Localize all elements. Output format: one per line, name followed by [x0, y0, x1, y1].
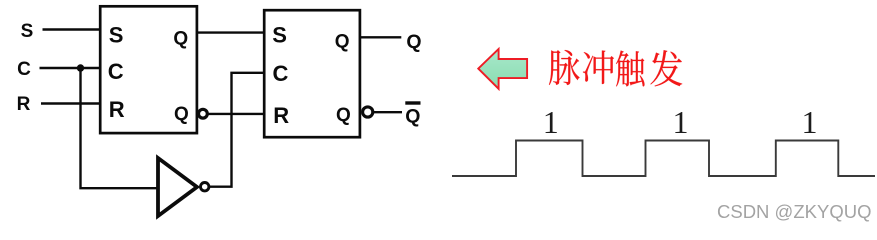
wire U1.Q to U2.S [197, 31, 264, 33]
svg-text:Q: Q [336, 105, 351, 126]
U2 Q-bar output bubble [363, 107, 373, 117]
svg-text:1: 1 [673, 104, 689, 140]
U1 Q-bar output bubble [199, 109, 208, 118]
svg-text:Q: Q [335, 32, 350, 53]
clock waveform [452, 141, 875, 177]
svg-text:Q: Q [174, 104, 189, 125]
wire C to inverter (down and right) [81, 68, 158, 188]
svg-text:CSDN @ZKYQUQ: CSDN @ZKYQUQ [717, 201, 871, 222]
svg-text:R: R [17, 94, 31, 115]
svg-text:S: S [21, 21, 34, 42]
annotation text 脉冲触发 (pulse-triggered) [549, 50, 682, 86]
svg-text:S: S [109, 22, 124, 47]
wire R input [41, 102, 100, 104]
wire C input [40, 67, 101, 69]
svg-text:Q: Q [405, 105, 420, 127]
wire U1.Q-bar to U2.R [207, 113, 264, 115]
wire inverter output to U2.C [209, 73, 264, 187]
svg-text:R: R [273, 103, 289, 128]
svg-text:C: C [108, 59, 124, 84]
svg-text:1: 1 [543, 104, 559, 140]
wire S input [43, 28, 101, 30]
flip-flop U1 (master latch) [100, 6, 197, 133]
wire U2.Q-bar output [373, 111, 402, 113]
svg-text:C: C [273, 61, 289, 86]
wire U2.Q output [360, 36, 401, 38]
svg-text:Q: Q [406, 31, 421, 53]
svg-text:1: 1 [802, 104, 818, 140]
flip-flop U2 (slave latch) [264, 10, 360, 137]
output Q-bar overline [405, 101, 420, 104]
svg-text:R: R [109, 97, 125, 122]
svg-text:Q: Q [173, 28, 188, 49]
svg-text:C: C [17, 59, 31, 80]
node C junction dot [77, 64, 84, 71]
inverter G1 [158, 158, 197, 216]
svg-text:S: S [272, 23, 287, 48]
inverter G1 output bubble [201, 183, 209, 191]
